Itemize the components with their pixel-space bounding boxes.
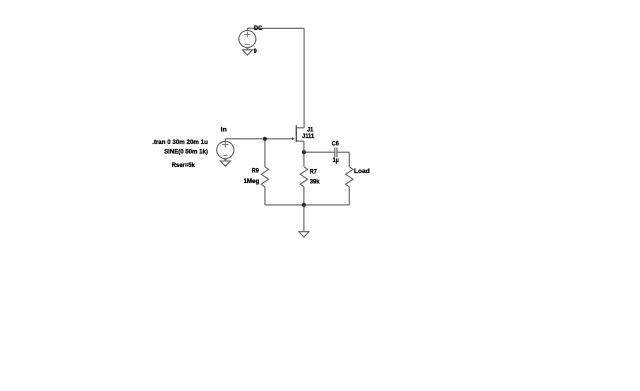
- JFET J1: [292, 125, 304, 152]
- wire: [265, 204, 349, 206]
- svg-text:9: 9: [254, 48, 257, 55]
- wire: [225, 138, 292, 140]
- svg-text:SINE(0 50m 1k): SINE(0 50m 1k): [164, 148, 208, 155]
- wire: [303, 28, 305, 128]
- ground: [220, 161, 230, 166]
- capacitor C6: [304, 148, 349, 158]
- wire: [303, 205, 305, 232]
- svg-text:R7: R7: [310, 169, 317, 176]
- resistor R7: [300, 152, 307, 205]
- svg-text:DC: DC: [254, 25, 262, 32]
- node junction dot: [302, 203, 306, 207]
- resistor Load: [346, 152, 353, 205]
- node junction dot: [263, 137, 267, 141]
- svg-text:In: In: [221, 126, 227, 133]
- node junction dot: [302, 150, 306, 154]
- ground: [299, 232, 309, 237]
- svg-text:1µ: 1µ: [333, 157, 339, 164]
- svg-text:.tran 0 30m 20m 1u: .tran 0 30m 20m 1u: [152, 139, 208, 146]
- voltage source V1 (DC 9): [239, 28, 256, 50]
- svg-text:39k: 39k: [310, 179, 320, 186]
- svg-text:Rser=5k: Rser=5k: [172, 162, 195, 169]
- voltage source V2 (In): [217, 139, 234, 161]
- svg-text:J111: J111: [302, 133, 314, 140]
- wire: [247, 27, 304, 29]
- svg-text:Load: Load: [354, 168, 370, 175]
- ground: [242, 50, 252, 55]
- svg-text:C6: C6: [332, 141, 339, 148]
- svg-text:1Meg: 1Meg: [244, 178, 260, 185]
- svg-text:R9: R9: [252, 168, 259, 175]
- resistor R9: [261, 139, 268, 205]
